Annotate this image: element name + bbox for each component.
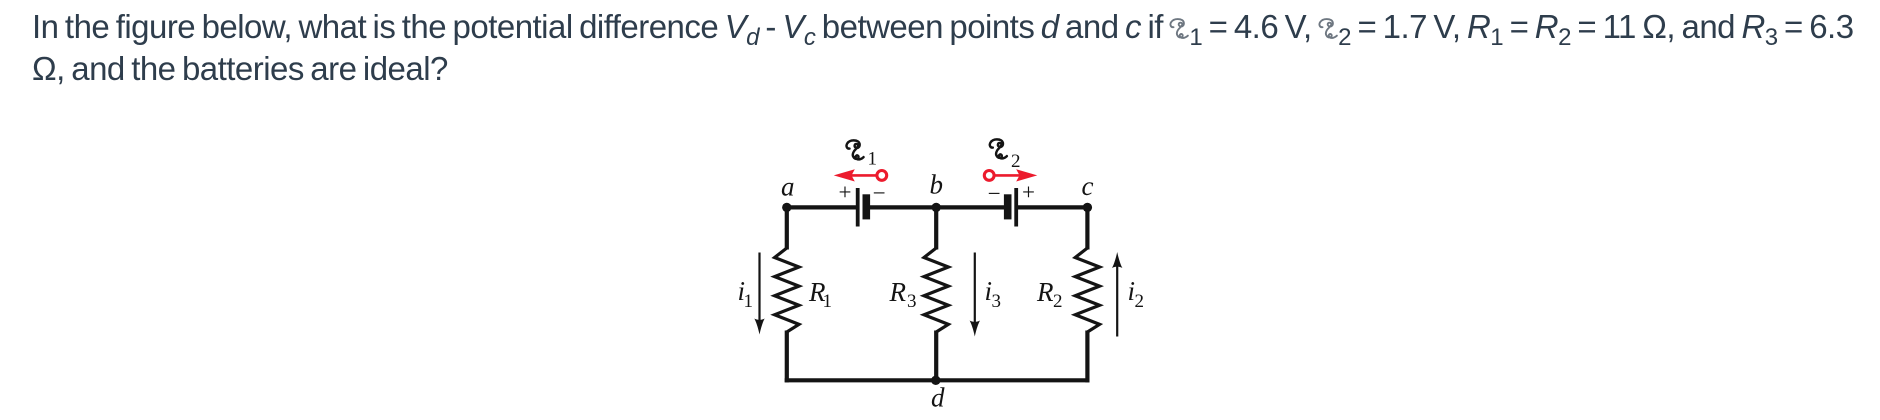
node b bbox=[932, 203, 941, 212]
battery E2 positive plate bbox=[1014, 188, 1018, 227]
current arrow i1 (down) bbox=[758, 253, 760, 323]
wire left vertical lower bbox=[785, 331, 789, 383]
resistor R2 bbox=[1075, 248, 1099, 332]
current arrow i3 (down) bbox=[974, 253, 976, 325]
svg-text:3: 3 bbox=[992, 291, 1002, 312]
wire middle vertical upper bbox=[934, 205, 938, 249]
node c bbox=[1083, 203, 1092, 212]
svg-text:c: c bbox=[1082, 171, 1094, 201]
wire battery1 to b bbox=[866, 205, 936, 209]
battery E2 negative plate bbox=[1004, 194, 1012, 219]
svg-text:d: d bbox=[931, 383, 945, 413]
node a bbox=[782, 203, 791, 212]
svg-text:+: + bbox=[839, 180, 852, 205]
svg-text:b: b bbox=[930, 170, 944, 200]
wire battery2 to c bbox=[1016, 205, 1087, 209]
question text bbox=[32, 6, 1854, 90]
hidden defs for script-E glyph bbox=[0, 0, 1, 1]
svg-text:a: a bbox=[781, 172, 795, 202]
wire bottom bbox=[785, 378, 1090, 382]
svg-text:1: 1 bbox=[823, 291, 833, 312]
emf E1 red arrow bbox=[834, 169, 887, 181]
wire top a to battery1 bbox=[787, 205, 856, 209]
battery E1 negative plate bbox=[863, 194, 871, 219]
node d bbox=[931, 376, 940, 385]
svg-text:3: 3 bbox=[907, 291, 917, 312]
resistor R3 bbox=[924, 248, 948, 332]
label E2 script bbox=[990, 139, 1007, 158]
wire right vertical upper bbox=[1085, 205, 1089, 249]
svg-text:1: 1 bbox=[868, 149, 878, 170]
resistor R1 bbox=[775, 248, 799, 332]
wire left vertical upper bbox=[785, 205, 789, 249]
svg-text:2: 2 bbox=[1011, 151, 1021, 172]
wire middle vertical lower bbox=[934, 331, 938, 383]
svg-text:R: R bbox=[889, 277, 907, 307]
wire right vertical lower bbox=[1085, 331, 1089, 383]
svg-text:R: R bbox=[1036, 277, 1054, 307]
svg-text:+: + bbox=[1022, 180, 1035, 205]
battery E1 positive plate bbox=[856, 188, 860, 227]
wire b to battery2 bbox=[936, 205, 1008, 209]
svg-text:−: − bbox=[873, 181, 886, 206]
svg-text:1: 1 bbox=[744, 291, 754, 312]
svg-text:−: − bbox=[988, 181, 1001, 206]
label E1 script bbox=[847, 140, 864, 159]
svg-text:2: 2 bbox=[1053, 291, 1063, 312]
current arrow i2 (up) bbox=[1116, 265, 1118, 337]
svg-text:2: 2 bbox=[1135, 291, 1145, 312]
emf E2 red arrow bbox=[984, 169, 1037, 181]
